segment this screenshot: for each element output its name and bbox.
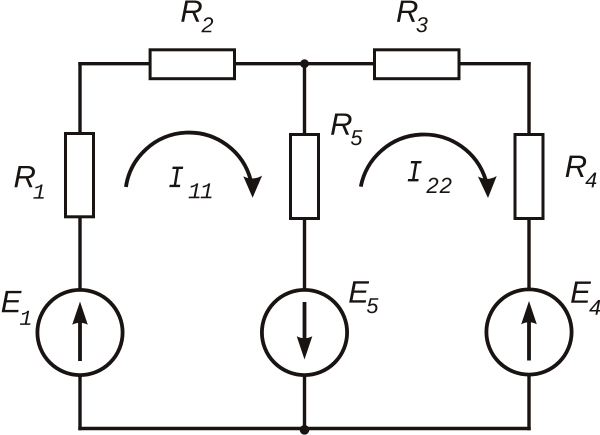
label R4 bbox=[566, 156, 597, 188]
label R5 bbox=[331, 113, 362, 145]
node bottom junction bbox=[300, 425, 310, 435]
label I11 bbox=[169, 167, 211, 199]
wire right branch bbox=[527, 62, 530, 430]
wire left branch bbox=[78, 62, 81, 430]
label I22 bbox=[408, 161, 452, 193]
wire top net bbox=[78, 62, 530, 65]
wire bottom net bbox=[78, 427, 530, 430]
source E5 arrow bbox=[297, 302, 313, 360]
resistor R3 bbox=[375, 50, 460, 79]
label R2 bbox=[181, 0, 213, 32]
source E5 bbox=[262, 290, 347, 375]
source E4 arrow bbox=[521, 301, 537, 361]
label E1 bbox=[2, 291, 31, 325]
mesh current arrow I11 bbox=[126, 133, 262, 198]
resistor R5 bbox=[291, 135, 319, 219]
label E4 bbox=[571, 281, 600, 314]
source E1 arrow bbox=[72, 302, 88, 362]
resistor R1 bbox=[66, 134, 94, 217]
node top junction bbox=[300, 59, 309, 68]
source E4 bbox=[486, 289, 571, 374]
source E1 bbox=[37, 290, 122, 375]
label R3 bbox=[397, 1, 428, 33]
label E5 bbox=[349, 281, 378, 313]
resistor R2 bbox=[150, 50, 234, 79]
label R1 bbox=[14, 166, 43, 199]
resistor R4 bbox=[515, 135, 543, 219]
mesh current arrow I22 bbox=[361, 134, 497, 198]
wire middle branch bbox=[303, 62, 306, 430]
